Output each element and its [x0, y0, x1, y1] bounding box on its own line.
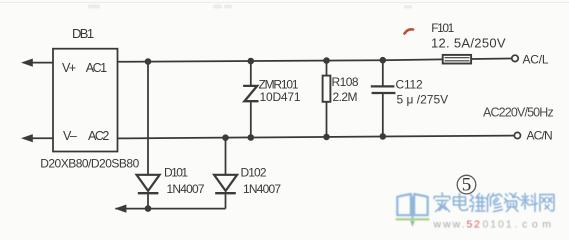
- svg-text:1N4007: 1N4007: [167, 182, 205, 196]
- wire AC2 bottom rail: [118, 136, 515, 139]
- fuse F101 body: [443, 55, 471, 64]
- svg-text:AC220V/50Hz: AC220V/50Hz: [483, 105, 553, 119]
- wire R108 vertical: [326, 61, 328, 76]
- faint scan specks: [88, 5, 412, 9]
- watermark book icon: [397, 194, 427, 219]
- wire V+ lead: [24, 62, 53, 64]
- terminal AC/L: [512, 55, 518, 61]
- red pen mark near F101: [405, 29, 414, 33]
- arrow V- output: [21, 134, 33, 142]
- bridge rectifier DB1: [53, 49, 118, 152]
- svg-text:52: 52: [467, 218, 482, 230]
- capacitor C112 plates: [371, 86, 396, 93]
- watermark book tail: [410, 221, 415, 227]
- watermark chinese text 家电维修资料网: [434, 193, 554, 212]
- watermark url www.520101.com: [433, 218, 556, 230]
- junction bottom rail at ZMR101: [248, 134, 255, 141]
- varistor ZMR101 symbol: [244, 86, 258, 101]
- char 维: [470, 194, 486, 212]
- char 电: [454, 194, 468, 211]
- wire ZMR101 vertical: [250, 61, 252, 86]
- svg-text:D101: D101: [164, 166, 188, 180]
- svg-text:5: 5: [462, 175, 472, 196]
- svg-text:10D471: 10D471: [260, 90, 301, 104]
- wire C112 vertical: [382, 60, 384, 86]
- svg-text:.com: .com: [515, 218, 556, 230]
- svg-text:D102: D102: [241, 166, 267, 180]
- junction bottom rail at R108: [323, 134, 330, 141]
- char 资: [505, 193, 520, 212]
- svg-text:AC2: AC2: [88, 129, 109, 143]
- diode D101: [137, 175, 160, 193]
- arrow bottom rail output: [115, 205, 127, 213]
- svg-text:0101: 0101: [483, 218, 514, 230]
- svg-text:R108: R108: [332, 75, 359, 89]
- svg-text:2.2M: 2.2M: [333, 90, 358, 104]
- arrow V+ output: [21, 59, 33, 67]
- svg-text:www.: www.: [433, 218, 467, 230]
- svg-text:5 μ /275V: 5 μ /275V: [397, 92, 449, 106]
- svg-text:DB1: DB1: [72, 26, 94, 41]
- wire bottom rail to arrow: [116, 208, 226, 210]
- svg-text:AC/N: AC/N: [527, 129, 552, 143]
- junction top rail at C112: [380, 57, 387, 64]
- char 网: [540, 195, 554, 212]
- svg-text:AC/L: AC/L: [523, 53, 549, 67]
- junction lower rail at D101: [145, 205, 152, 212]
- watermark book green base: [396, 218, 430, 220]
- diode D102: [214, 175, 237, 193]
- wire AC1 top rail: [118, 59, 443, 61]
- junction top rail at ZMR101: [248, 58, 255, 65]
- circled number 5: [457, 175, 476, 196]
- junction top rail at D101: [145, 58, 152, 65]
- wire D102 vertical: [225, 138, 227, 175]
- resistor R108 body: [323, 76, 331, 102]
- terminal AC/N: [514, 132, 520, 138]
- char 家: [434, 193, 450, 212]
- svg-text:AC1: AC1: [86, 61, 107, 75]
- svg-text:V–: V–: [63, 129, 77, 143]
- junction bottom rail at C112: [380, 133, 387, 140]
- junction bottom rail at D102: [222, 134, 229, 141]
- char 修: [487, 194, 503, 212]
- faint top scan line: [0, 2, 569, 4]
- svg-text:C112: C112: [396, 77, 424, 91]
- svg-text:1N4007: 1N4007: [243, 182, 281, 196]
- svg-text:D20XB80/D20SB80: D20XB80/D20SB80: [40, 157, 139, 171]
- junction top rail at R108: [323, 57, 330, 64]
- wire D101 vertical: [147, 62, 149, 175]
- wire fuse to AC/L: [471, 58, 512, 61]
- svg-text:V+: V+: [62, 61, 76, 75]
- char 料: [521, 194, 538, 212]
- wire V- lead: [24, 137, 53, 139]
- svg-text:12. 5A/250V: 12. 5A/250V: [431, 36, 506, 51]
- svg-text:F101: F101: [431, 21, 454, 35]
